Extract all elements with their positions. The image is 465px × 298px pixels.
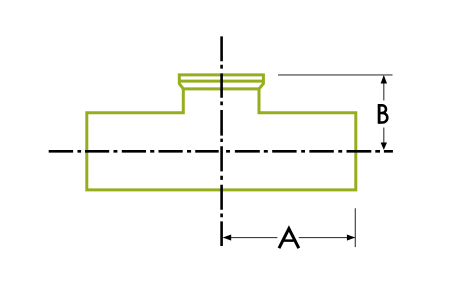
dimension A extension line (right) <box>354 208 356 247</box>
dimension A line left segment <box>224 237 278 239</box>
label B <box>379 104 387 124</box>
dimension A arrowhead right <box>347 234 355 240</box>
vertical centerline <box>220 36 223 246</box>
dimension A line right segment <box>299 237 355 239</box>
horizontal centerline <box>49 150 393 153</box>
ferrule neck top line <box>183 87 259 90</box>
dimension B line upper segment <box>383 76 385 101</box>
dimension B arrowhead down <box>381 143 387 150</box>
dimension B extension line (top) <box>278 74 393 76</box>
dimension B line lower segment <box>383 128 385 149</box>
label A <box>279 229 299 249</box>
dimension A arrowhead left <box>223 234 231 240</box>
tee fitting body and branch outline <box>87 75 356 190</box>
ferrule flange inner line <box>179 80 263 83</box>
dimension B arrowhead up <box>381 75 387 83</box>
